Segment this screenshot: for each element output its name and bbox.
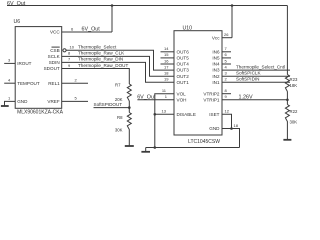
junction ISET to GND wire	[230, 127, 233, 130]
svg-text:DISABLE: DISABLE	[177, 112, 196, 117]
svg-text:Thermopile_Select_Cntl: Thermopile_Select_Cntl	[236, 64, 285, 69]
IC U6 MLX90601KZA-CKA body	[15, 27, 62, 109]
svg-text:VOL: VOL	[177, 91, 187, 96]
svg-text:IN6: IN6	[212, 49, 220, 54]
svg-text:8: 8	[68, 51, 71, 56]
svg-text:7: 7	[225, 46, 228, 51]
svg-text:SCLK: SCLK	[48, 54, 61, 59]
U6 pin 6 VCC wire to 6V rail	[62, 31, 112, 33]
svg-text:16: 16	[164, 58, 169, 63]
junction on 6V rail at U10 Vcc riser	[231, 4, 234, 7]
svg-text:1: 1	[165, 94, 168, 99]
U10 pin 12 ISET wire down to GND wire	[222, 114, 232, 128]
U10 pin 7 IN6 stub	[222, 51, 231, 53]
resistor R8	[127, 108, 131, 146]
U10 pin 1 VOH wire 6V_Out	[137, 99, 174, 101]
svg-text:2: 2	[75, 78, 78, 83]
svg-text:IN4: IN4	[212, 62, 220, 67]
svg-text:IN3: IN3	[212, 68, 220, 73]
svg-text:15: 15	[164, 52, 169, 57]
wire rail left end down to ground	[145, 148, 147, 152]
resistor R7	[127, 84, 131, 101]
wire riser from rail to U10 Vcc	[231, 6, 233, 38]
svg-text:19: 19	[164, 77, 169, 82]
svg-text:OUT3: OUT3	[177, 68, 190, 73]
wire riser from rail to U6 VCC	[111, 6, 113, 33]
svg-text:IN1: IN1	[212, 80, 220, 85]
svg-text:CSB: CSB	[50, 48, 59, 53]
svg-text:11: 11	[162, 88, 167, 93]
svg-text:MLX90601KZA-CKA: MLX90601KZA-CKA	[17, 110, 64, 116]
resistor R23	[285, 75, 289, 92]
ground rail wire	[146, 147, 240, 149]
U6 pin 9 wire Thermopile_Raw_DOUT	[62, 69, 130, 85]
wire SoftSPIDOUT	[94, 107, 130, 109]
svg-text:OUT4: OUT4	[177, 62, 190, 67]
svg-text:6: 6	[225, 52, 228, 57]
svg-text:7: 7	[68, 57, 71, 62]
svg-text:14: 14	[164, 46, 169, 51]
svg-text:17: 17	[164, 64, 169, 69]
svg-text:26: 26	[224, 32, 229, 37]
U6 pin 5 VREF stub	[62, 100, 88, 102]
svg-text:SDIN: SDIN	[49, 60, 60, 65]
svg-text:OUT6: OUT6	[177, 49, 190, 54]
U6 pin 7 wire Thermopile_Raw_DIN	[62, 62, 174, 82]
U10 pin 13 DISABLE wire	[155, 113, 174, 115]
U6 pin 1 GND wire	[5, 101, 16, 106]
svg-text:5: 5	[225, 58, 228, 63]
svg-text:2: 2	[225, 77, 228, 82]
svg-text:6V_Out: 6V_Out	[7, 1, 26, 7]
U6 pin 10 CSB inversion bubble	[63, 49, 66, 52]
U10 pin 11 VOL wire to ground chain	[155, 94, 174, 148]
svg-text:U10: U10	[183, 25, 193, 31]
svg-text:VREF: VREF	[47, 99, 59, 104]
junction on 6V rail at U6 VCC riser	[111, 4, 114, 7]
svg-text:Vcc: Vcc	[212, 35, 220, 40]
svg-text:R7: R7	[115, 83, 121, 88]
U6 pin 2 REL1 stub	[62, 82, 88, 84]
svg-text:OUT2: OUT2	[177, 74, 190, 79]
svg-text:REL1: REL1	[48, 81, 60, 86]
svg-text:TEMPOUT: TEMPOUT	[17, 81, 40, 86]
wire R7 bottom to junction	[128, 101, 130, 108]
svg-text:SDOUT: SDOUT	[44, 66, 60, 71]
U10 pin 26 Vcc wire	[222, 37, 232, 39]
svg-text:6V_Out: 6V_Out	[82, 26, 101, 32]
svg-text:VOH: VOH	[177, 97, 187, 102]
svg-text:OUT1: OUT1	[177, 80, 190, 85]
U10 pin 6 IN5 stub	[222, 57, 231, 59]
U10 pin 16 OUT4 stub	[161, 63, 175, 65]
svg-text:4: 4	[8, 78, 11, 83]
svg-text:9: 9	[225, 94, 228, 99]
svg-text:13: 13	[162, 109, 167, 114]
svg-text:3: 3	[225, 71, 228, 76]
U10 pin 9 VTRIP1 wire 1.26V	[222, 99, 287, 101]
svg-text:12: 12	[225, 109, 230, 114]
svg-text:1: 1	[8, 96, 11, 101]
junction ground chain to rail	[154, 146, 157, 149]
wire R23 bottom to 1.26V node	[286, 92, 288, 100]
svg-text:8: 8	[225, 88, 228, 93]
svg-text:SoftSPIDOUT: SoftSPIDOUT	[94, 102, 123, 107]
U10 pin 14 OUT6 stub	[161, 51, 175, 53]
svg-text:VTRIP1: VTRIP1	[203, 97, 220, 102]
svg-text:9: 9	[68, 63, 71, 68]
svg-text:VTRIP2: VTRIP2	[203, 91, 220, 96]
net 6V_Out top rail wire	[7, 5, 287, 7]
ground symbol at U6 GND	[1, 105, 9, 107]
svg-text:6V_Out: 6V_Out	[137, 94, 156, 100]
svg-text:ISET: ISET	[209, 112, 219, 117]
junction SoftSPIDOUT / R7 / R8	[128, 106, 131, 109]
svg-text:R8: R8	[117, 115, 123, 120]
U6 pin 8 wire Thermopile_Raw_CLK	[62, 56, 174, 76]
svg-text:18: 18	[234, 123, 239, 128]
junction 1.26V node	[286, 99, 289, 102]
U6 pin 10 wire Thermopile_Select	[66, 50, 174, 70]
U10 pin 18 GND wire to ground rail	[222, 129, 240, 148]
svg-text:18: 18	[164, 71, 169, 76]
svg-text:18K: 18K	[290, 83, 298, 88]
svg-text:10: 10	[70, 45, 75, 50]
U6 pin 3 IROUT stub	[4, 62, 15, 64]
svg-text:LTC1045CSW: LTC1045CSW	[188, 139, 220, 145]
svg-text:IN5: IN5	[212, 56, 220, 61]
junction DISABLE to ground chain	[154, 113, 157, 116]
svg-text:Thermopile_Raw_CLK: Thermopile_Raw_CLK	[78, 51, 125, 56]
U6 pin 4 TEMPOUT stub	[4, 82, 15, 84]
svg-text:OUT5: OUT5	[177, 56, 190, 61]
svg-text:IN2: IN2	[212, 74, 220, 79]
svg-text:30K: 30K	[115, 127, 123, 132]
svg-text:GND: GND	[17, 99, 28, 104]
svg-text:SoftSPIDIN: SoftSPIDIN	[236, 77, 260, 82]
svg-text:5: 5	[75, 96, 78, 101]
U10 pin 5 IN4 stub	[222, 63, 231, 65]
IC U10 LTC1045CSW body	[174, 31, 222, 135]
U10 pin 15 OUT5 stub	[161, 57, 175, 59]
svg-text:4: 4	[225, 64, 228, 69]
U10 pin 4 IN3 wire Thermopile_Select_Cntl	[222, 69, 290, 71]
svg-text:3: 3	[8, 58, 11, 63]
svg-text:Thermopile_Raw_DIN: Thermopile_Raw_DIN	[78, 57, 123, 62]
svg-text:SoftSPICLK: SoftSPICLK	[236, 71, 261, 76]
U10 pin 3 IN2 wire SoftSPICLK	[222, 75, 290, 77]
svg-text:6: 6	[71, 26, 74, 31]
svg-text:R22: R22	[290, 109, 298, 114]
U10 pin 2 IN1 wire SoftSPIDIN	[222, 81, 290, 83]
resistor R22	[285, 100, 289, 139]
svg-text:R23: R23	[290, 77, 298, 82]
ground symbol below R8	[125, 145, 134, 147]
ground symbol below R22	[283, 139, 291, 141]
svg-text:1.26V: 1.26V	[239, 94, 253, 100]
svg-text:Thermopile_Select: Thermopile_Select	[78, 45, 117, 50]
ground symbol at rail left end	[141, 151, 150, 153]
svg-text:Thermopile_Raw_DOUT: Thermopile_Raw_DOUT	[78, 63, 128, 68]
wire rail right end down to R23	[286, 6, 288, 75]
svg-text:GND: GND	[209, 126, 220, 131]
U10 pin 8 VTRIP2 stub	[222, 93, 231, 95]
svg-text:IROUT: IROUT	[17, 61, 31, 66]
svg-text:VCC: VCC	[50, 30, 60, 35]
svg-text:U6: U6	[14, 19, 21, 25]
svg-text:30K: 30K	[290, 120, 298, 125]
